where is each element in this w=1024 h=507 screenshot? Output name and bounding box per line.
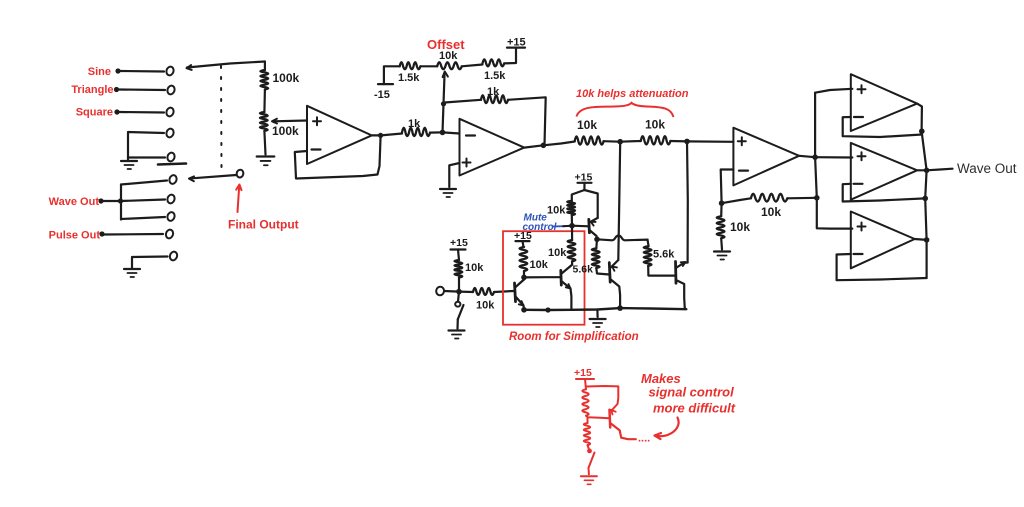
resistor R 5.6k second <box>644 246 652 265</box>
node Square terminal <box>114 109 119 114</box>
node U3 feedback node <box>719 200 725 206</box>
label 10k input series <box>476 300 495 312</box>
wire U3 minus loop <box>721 170 734 204</box>
wire Q1 collector to Q2 base <box>524 276 561 278</box>
wire rail ground stub <box>596 310 598 318</box>
resistor R 10k input series <box>473 288 494 295</box>
switch contact 1 <box>165 66 174 77</box>
switch contact 2 <box>166 85 175 96</box>
label -15 <box>374 89 390 101</box>
switch contact 5 <box>166 152 175 163</box>
svg-text:Sine: Sine <box>88 66 111 78</box>
wire box 10k to Q1 collector <box>523 271 525 277</box>
node atten junction2 <box>684 139 690 145</box>
node fb bus junction <box>814 195 820 201</box>
transistor Q1 <box>515 277 525 309</box>
switch contact 3 <box>165 107 174 118</box>
node red switch top <box>587 449 592 454</box>
svg-text:1.5k: 1.5k <box>484 70 506 82</box>
node Triangle terminal <box>114 87 119 92</box>
label dots <box>638 433 650 445</box>
svg-text:10k: 10k <box>761 205 781 219</box>
label 1.5k right <box>484 70 506 82</box>
wire between 100k <box>263 90 266 113</box>
switch contact 9 <box>165 229 174 240</box>
potentiometer 10k offset <box>437 62 462 69</box>
label 10k helps attenuation <box>576 88 689 100</box>
label Pulse Out <box>49 230 101 242</box>
resistor R 1k feedback <box>481 95 508 103</box>
wire -15 to 1.5k <box>384 66 400 84</box>
annotation brace <box>577 103 674 117</box>
resistor R 1.5k left <box>400 62 421 69</box>
wire pot to 1.5k right <box>462 65 483 67</box>
ground <box>714 252 730 260</box>
ground <box>449 331 465 339</box>
node Q2m emitter junction <box>594 237 600 243</box>
node B2 output junction <box>924 168 930 174</box>
wire mute rail with hop <box>597 236 649 247</box>
ground <box>590 319 606 327</box>
svg-text:10k: 10k <box>577 118 597 132</box>
wire selector pole mark <box>158 164 186 165</box>
svg-text:more difficult: more difficult <box>653 401 736 416</box>
ground <box>124 269 140 277</box>
wire atten to U3 <box>670 140 733 143</box>
label Mute <box>524 213 548 224</box>
resistor R 10k mute pullup <box>567 201 575 215</box>
node Q3 emitter junction <box>617 305 623 311</box>
wire +15 split <box>572 183 598 218</box>
wire buffer input bus <box>815 89 852 229</box>
wire gnd leg bottom <box>720 238 723 249</box>
wire lower 10k to Q2 collector <box>571 261 573 264</box>
svg-text:5.6k: 5.6k <box>653 249 675 261</box>
svg-text:10k: 10k <box>530 259 549 271</box>
transistor Q2 <box>561 265 572 310</box>
transistor Q4 <box>676 262 688 309</box>
label +15 red <box>574 367 592 379</box>
resistor R 10k atten1 <box>575 136 604 144</box>
svg-text:Wave Out: Wave Out <box>957 161 1017 176</box>
switch contact 4 <box>165 128 174 139</box>
label 10k U3 feedback <box>761 205 781 219</box>
resistor R 10k mute lower <box>568 240 576 261</box>
supply +15 bar <box>578 182 592 184</box>
supply +15 bar <box>507 46 525 48</box>
wire 5.6k2 to Q4 base <box>648 266 675 276</box>
switch contact 8 <box>166 211 175 222</box>
wire U3 gnd leg <box>720 203 723 216</box>
wire input to junction <box>444 290 459 293</box>
svg-text:5.6k: 5.6k <box>573 264 594 276</box>
svg-text:Room for Simplification: Room for Simplification <box>509 331 639 343</box>
wire Wave Out to bracket <box>103 200 120 202</box>
label 1.5k left <box>398 72 420 84</box>
wire bus B1-B2 <box>922 131 927 170</box>
label 5.6k first <box>573 264 594 276</box>
annotation arrow Final Output <box>236 185 241 213</box>
wire mute node down <box>571 226 573 240</box>
label Offset <box>427 37 465 52</box>
terminal input <box>435 286 444 296</box>
node bracket junction <box>118 198 123 203</box>
wire selector feed with arrow <box>187 62 265 70</box>
supply +15 bar <box>516 240 530 242</box>
wire buffer B3 feedback <box>837 254 927 280</box>
label 10k offset <box>439 50 458 62</box>
wire fb resistor to bus <box>787 197 817 200</box>
node bus junction mid <box>922 196 928 202</box>
wire buffer B1 output <box>917 104 922 132</box>
transistor Q red <box>610 410 636 439</box>
wire feedback left <box>445 100 482 103</box>
wire pot wiper <box>443 72 448 133</box>
label 10k mute pullup <box>547 205 566 217</box>
ground <box>440 189 456 197</box>
wire 100k to ground <box>264 131 265 155</box>
op-amp buffer B1 <box>851 74 917 131</box>
wire junction1 drop <box>618 142 620 260</box>
node rail junction <box>545 307 550 312</box>
svg-text:1.5k: 1.5k <box>398 72 420 84</box>
ground red <box>581 476 597 484</box>
wire red lower stem <box>588 417 590 451</box>
transistor Q2m <box>589 218 598 239</box>
wire dashed selector travel <box>220 66 223 169</box>
wire emitter rail <box>524 308 686 310</box>
svg-text:10k: 10k <box>465 262 484 274</box>
label control <box>523 222 557 233</box>
wire U3 output <box>799 156 815 157</box>
node Q1 collector junction <box>521 275 527 281</box>
wire 1.5k to pot <box>420 65 437 67</box>
wire pullup to junction <box>458 278 460 292</box>
svg-text:1k: 1k <box>487 86 500 98</box>
label 10k mute lower <box>548 247 567 259</box>
label +15 input pullup <box>450 237 468 249</box>
wire junction to series resistor <box>459 291 473 294</box>
node atten junction1 <box>617 139 623 145</box>
node U3 output junction <box>812 154 818 160</box>
node B1 output junction <box>919 128 925 134</box>
node U2 output <box>541 143 547 149</box>
node Pulse Out terminal <box>99 231 104 236</box>
wire mute pullup to node <box>571 215 573 226</box>
svg-text:100k: 100k <box>273 71 300 85</box>
label +15 box <box>514 230 532 242</box>
svg-text:10k: 10k <box>730 220 750 234</box>
wire Sine to switch <box>121 70 165 73</box>
wire contact10 to ground <box>132 257 168 269</box>
node B3 output junction <box>924 237 930 243</box>
svg-text:Wave Out: Wave Out <box>49 196 100 208</box>
op-amp U3 <box>733 128 799 186</box>
label Wave Out <box>49 196 100 208</box>
wire U2 output <box>524 142 575 148</box>
label 1k series <box>408 118 421 130</box>
op-amp buffer B3 <box>851 212 915 269</box>
wire final output to contact6 <box>189 175 236 181</box>
wire Square to switch <box>120 111 165 114</box>
svg-text:Triangle: Triangle <box>71 84 113 96</box>
label Room for Simplification <box>509 331 639 343</box>
resistor R red upper <box>582 389 588 415</box>
svg-text:Square: Square <box>76 107 113 119</box>
supply +15 bar red <box>576 378 594 380</box>
wire red stem <box>585 379 586 389</box>
svg-text:+15: +15 <box>507 37 526 49</box>
svg-text:10k: 10k <box>476 300 495 312</box>
label Makes <box>641 371 681 386</box>
wire U1 feedback loop <box>295 136 381 179</box>
svg-text:100k: 100k <box>272 124 299 138</box>
switch red <box>589 453 595 468</box>
resistor R 1.5k right <box>483 59 505 66</box>
annotation box Room for Simplification <box>503 231 585 325</box>
wire U1 output <box>372 134 402 136</box>
node mute node <box>569 223 575 229</box>
resistor R 1k series <box>402 128 430 136</box>
switch contact 6 <box>168 174 177 185</box>
node U1 output <box>378 133 383 138</box>
node Final Output terminal <box>236 169 244 178</box>
op-amp U1 <box>307 106 372 164</box>
wire top feed <box>264 62 266 71</box>
svg-text:1k: 1k <box>408 118 421 130</box>
wire Pulse Out to switch <box>104 233 163 236</box>
resistor R 10k U3 ground <box>717 216 725 238</box>
wire Triangle to switch <box>119 88 165 91</box>
svg-text:10k: 10k <box>645 118 665 132</box>
label Square <box>76 107 113 119</box>
node Q1 emitter junction <box>521 307 527 313</box>
wire buffer B3 output <box>915 238 927 241</box>
resistor R 10k input pullup <box>455 260 463 278</box>
supply +15 bar <box>451 248 466 250</box>
ground <box>121 161 137 169</box>
wire junction2 drop <box>686 141 689 262</box>
label more difficult <box>653 401 736 416</box>
wire +15 to 10k box <box>523 241 524 247</box>
resistor R red lower <box>584 423 590 445</box>
wire buffer B2 feedback <box>843 184 926 202</box>
wire red ground stem <box>588 468 590 474</box>
label 100k upper <box>273 71 300 85</box>
resistor R 10k atten2 <box>641 136 671 144</box>
wire series to Q1 base <box>494 291 513 292</box>
annotation curved arrow <box>655 418 679 440</box>
node input junction <box>456 289 462 295</box>
svg-text:....: .... <box>638 433 650 445</box>
switch mute input <box>455 292 463 329</box>
label 10k U3 ground <box>730 220 750 234</box>
svg-text:+15: +15 <box>574 367 592 379</box>
ground <box>257 157 275 166</box>
wire 5.6k1 to Q3 base <box>596 268 609 275</box>
label +15 mute <box>575 172 593 184</box>
wire buffer B2 output <box>917 169 927 171</box>
wire fb node to resistor <box>722 198 751 203</box>
label Triangle <box>71 84 113 96</box>
wire bracket contacts 6-7-8 <box>121 181 167 220</box>
wire buffer B1 feedback <box>843 117 922 137</box>
op-amp U2 <box>460 119 525 176</box>
wire +15 to 10k <box>458 250 459 261</box>
wire contact4 to ground bracket <box>128 132 164 161</box>
wire feedback right <box>508 97 546 145</box>
label signal control <box>649 385 735 400</box>
label 10k box <box>530 259 549 271</box>
wire node to U2 minus <box>443 132 460 133</box>
wire Wave Out lead <box>927 169 953 171</box>
label +15 <box>507 37 526 49</box>
resistor R 10k box <box>520 247 528 271</box>
wire U2 plus to ground <box>449 163 459 187</box>
resistor R 10k U3 feedback <box>751 194 787 202</box>
wire atten mid <box>604 140 641 143</box>
label 10k atten2 <box>645 118 665 132</box>
svg-text:+15: +15 <box>450 237 468 249</box>
switch contact 10 <box>169 251 178 262</box>
wire 1.5k to +15 <box>504 48 516 64</box>
wire opamp1 plus input arrow <box>272 119 307 124</box>
resistor R 5.6k first <box>592 248 600 268</box>
wire mute node to Q2m base <box>572 225 589 228</box>
label 100k lower <box>272 124 299 138</box>
resistor R 100k upper <box>260 70 268 90</box>
wire Q2m junction down <box>595 239 598 248</box>
label 1k feedback <box>487 86 500 98</box>
svg-text:10k: 10k <box>439 50 458 62</box>
resistor R 100k lower <box>260 112 268 131</box>
node Wave Out terminal <box>98 198 103 203</box>
label 5.6k second <box>653 249 675 261</box>
svg-text:control: control <box>523 222 557 233</box>
node Sine terminal <box>115 68 120 73</box>
svg-text:Pulse Out: Pulse Out <box>49 230 101 242</box>
label Sine <box>88 66 111 78</box>
switch contact 7 <box>166 194 175 205</box>
svg-text:signal control: signal control <box>649 385 735 400</box>
wire red emitter loop <box>586 386 618 411</box>
svg-text:Final Output: Final Output <box>228 218 299 232</box>
supply -15 bar <box>378 83 393 85</box>
node wiper-feedback junction <box>441 101 446 106</box>
svg-text:10k: 10k <box>548 247 567 259</box>
svg-text:10k helps attenuation: 10k helps attenuation <box>576 88 689 100</box>
wire bus B2-B3 <box>925 170 926 278</box>
wire mute control lead <box>553 225 573 228</box>
wire contact5 to ground bracket <box>128 156 165 158</box>
node U2 inverting node <box>440 130 446 136</box>
wire red base <box>586 416 610 419</box>
svg-text:10k: 10k <box>547 205 566 217</box>
label Wave Out <box>957 161 1017 176</box>
svg-text:-15: -15 <box>374 89 390 101</box>
transistor Q3 <box>609 260 620 308</box>
label Final Output <box>228 218 299 232</box>
wire 1k to U2 node <box>430 131 443 133</box>
label 10k atten1 <box>577 118 597 132</box>
op-amp buffer B2 <box>851 143 917 200</box>
label 10k input pullup <box>465 262 484 274</box>
